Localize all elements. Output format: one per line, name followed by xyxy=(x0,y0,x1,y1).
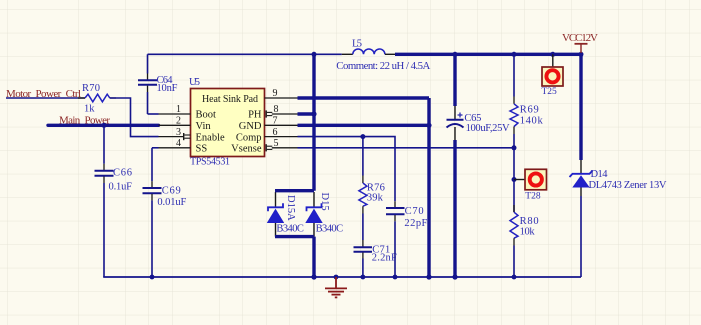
svg-text:Vin: Vin xyxy=(196,121,212,132)
svg-text:VCC12V: VCC12V xyxy=(562,32,598,44)
svg-text:R70: R70 xyxy=(82,83,100,94)
svg-text:8: 8 xyxy=(274,104,279,115)
diode D15 B340C xyxy=(305,192,343,237)
resistor R76 xyxy=(359,183,385,207)
svg-text:5: 5 xyxy=(274,138,279,149)
pin 1 xyxy=(159,104,191,115)
svg-text:C69: C69 xyxy=(162,186,181,197)
svg-text:2: 2 xyxy=(176,116,181,127)
wire diode bottom bracket xyxy=(275,235,314,238)
test point T25 xyxy=(542,54,564,97)
node junction on bus xyxy=(102,123,107,128)
svg-text:Vsense: Vsense xyxy=(231,144,262,155)
wire R69 to R80 xyxy=(513,134,515,212)
svg-text:1: 1 xyxy=(176,104,181,115)
svg-text:10k: 10k xyxy=(520,227,536,238)
node R69 junction xyxy=(512,52,517,57)
svg-text:TPS54531: TPS54531 xyxy=(190,157,230,168)
svg-text:39k: 39k xyxy=(367,193,384,204)
svg-text:6: 6 xyxy=(273,127,278,138)
resistor R80 xyxy=(510,205,539,246)
wire pin6 Comp xyxy=(298,137,396,208)
capacitor C66 xyxy=(95,125,133,277)
svg-text:Comment: 22 uH / 4.5A: Comment: 22 uH / 4.5A xyxy=(336,60,430,72)
capacitor C65 xyxy=(447,54,511,277)
svg-text:L5: L5 xyxy=(352,39,362,50)
svg-text:2.2nF: 2.2nF xyxy=(372,253,397,264)
wire R70 to Enable pin xyxy=(110,98,159,137)
wire pin8 PH xyxy=(298,112,315,115)
wire R76 to C71 xyxy=(362,206,364,247)
wire Comp branch down xyxy=(362,137,364,183)
wire diode top bracket xyxy=(275,189,314,192)
wire C64 to Boot pin xyxy=(148,113,159,115)
diode D15A B340C xyxy=(267,192,304,237)
svg-text:0.01uF: 0.01uF xyxy=(157,197,186,208)
wire SS pin to C69 xyxy=(152,147,159,149)
capacitor C64 xyxy=(138,54,178,114)
svg-text:0.1uF: 0.1uF xyxy=(109,182,133,193)
wire PH vertical xyxy=(312,54,315,190)
svg-text:4: 4 xyxy=(176,138,181,149)
svg-text:100uF,25V: 100uF,25V xyxy=(466,123,510,134)
test point T28 xyxy=(514,169,547,201)
ground xyxy=(325,277,347,297)
svg-text:Comp: Comp xyxy=(236,132,262,143)
svg-text:PH: PH xyxy=(248,110,262,121)
wire PH lower vertical to ground rail xyxy=(312,237,315,277)
wire pin5 Vsense xyxy=(298,147,515,149)
svg-text:1k: 1k xyxy=(84,104,95,115)
diode D14 zener xyxy=(570,160,667,277)
svg-text:B340C: B340C xyxy=(276,223,304,234)
svg-text:B340C: B340C xyxy=(316,223,344,234)
svg-text:9: 9 xyxy=(273,88,278,99)
svg-text:7: 7 xyxy=(273,116,278,127)
svg-text:GND: GND xyxy=(239,121,262,132)
node GND junction xyxy=(426,123,431,128)
svg-text:140k: 140k xyxy=(520,115,544,126)
pin 4 xyxy=(159,138,191,149)
svg-text:T28: T28 xyxy=(525,191,541,201)
wire top from C64 to PH node xyxy=(148,53,342,55)
svg-text:3: 3 xyxy=(176,127,181,138)
wire VCC output rail xyxy=(395,53,581,56)
node PH top junction xyxy=(312,52,317,57)
pin 8 xyxy=(266,104,297,117)
pin 2 xyxy=(159,116,191,127)
node rail junctions xyxy=(150,274,517,279)
svg-text:DL4743 Zener 13V: DL4743 Zener 13V xyxy=(589,180,667,191)
svg-text:Enable: Enable xyxy=(196,132,225,143)
wire R80 to ground rail xyxy=(513,246,515,278)
wire pin9 HeatSinkPad to GND loop xyxy=(298,96,430,99)
pin 9 xyxy=(265,88,298,99)
svg-text:D14: D14 xyxy=(591,169,609,180)
node Vsense divider junction xyxy=(512,145,517,150)
svg-text:10nF: 10nF xyxy=(157,83,178,94)
svg-text:D15A: D15A xyxy=(285,195,296,221)
capacitor C69 xyxy=(143,148,187,277)
resistor R70 xyxy=(78,83,116,115)
wire pin7 GND xyxy=(298,124,430,127)
svg-text:SS: SS xyxy=(196,144,208,155)
svg-text:22pF: 22pF xyxy=(404,218,427,229)
capacitor C70 xyxy=(386,206,428,277)
net label Motor_Power_Ctrl xyxy=(6,88,81,100)
wire GND loop vertical xyxy=(427,98,430,277)
pin 5 xyxy=(266,138,297,151)
inductor L5 xyxy=(336,39,430,73)
wire VCC vertical xyxy=(579,54,582,160)
power port VCC12V xyxy=(562,32,598,53)
svg-text:Boot: Boot xyxy=(196,110,217,121)
node PH pin8 junction xyxy=(311,111,316,116)
resistor R69 xyxy=(510,54,543,134)
node T25 junction xyxy=(550,52,555,57)
svg-text:C70: C70 xyxy=(405,206,424,217)
svg-text:D15: D15 xyxy=(319,193,330,211)
node rail corner junction xyxy=(579,52,584,57)
node T28 junction xyxy=(512,177,517,182)
svg-text:R69: R69 xyxy=(520,105,539,116)
capacitor C71 xyxy=(354,244,397,277)
svg-text:T25: T25 xyxy=(542,87,558,97)
wire ground rail xyxy=(103,276,581,278)
svg-text:R80: R80 xyxy=(520,216,539,227)
net label Main_Power xyxy=(59,115,110,127)
pin 6 xyxy=(265,127,298,138)
svg-text:C66: C66 xyxy=(113,168,132,179)
wire xyxy=(6,97,85,99)
node Comp branch junction xyxy=(360,134,365,139)
pin 7 xyxy=(265,116,298,127)
component U5 TPS54531 body xyxy=(189,77,265,168)
node C65 junction xyxy=(453,52,458,57)
pin 3 xyxy=(159,127,191,140)
svg-text:U5: U5 xyxy=(189,77,200,88)
pin names U5 xyxy=(196,94,262,155)
svg-text:Heat Sink Pad: Heat Sink Pad xyxy=(202,94,258,105)
wire Main Power bus xyxy=(48,124,159,127)
